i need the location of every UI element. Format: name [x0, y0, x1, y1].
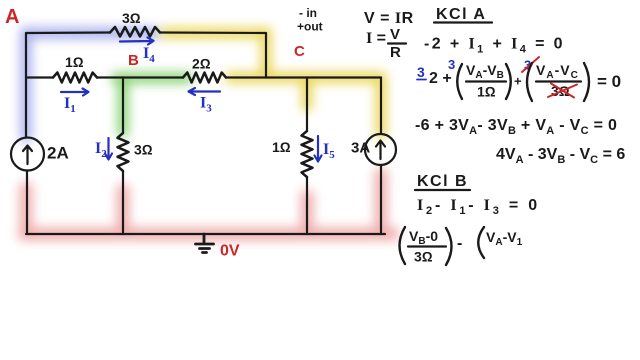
resistor 1ohm (vertical) — [302, 131, 313, 177]
paren ) VB fraction — [446, 228, 452, 265]
svg-text:+out: +out — [297, 20, 323, 34]
arrow I4 — [120, 38, 154, 45]
wire: below 2A source — [26, 171, 28, 235]
svg-text:2Ω: 2Ω — [192, 56, 211, 72]
wire: top row left lead — [26, 31, 110, 34]
svg-text:3Ω: 3Ω — [122, 10, 141, 26]
svg-text:3Ω: 3Ω — [414, 249, 433, 265]
svg-text:-: - — [457, 235, 462, 252]
wire: 1ohm branch top — [306, 78, 308, 132]
wire: top left vertical (node A) — [25, 33, 27, 137]
svg-text:A: A — [5, 6, 19, 28]
svg-text:KCl A: KCl A — [436, 6, 486, 23]
wire: bottom rail — [26, 233, 385, 235]
svg-text:1Ω: 1Ω — [65, 54, 84, 70]
paren ( VA fraction — [478, 227, 484, 258]
ground symbol — [196, 234, 214, 253]
svg-text:3Ω: 3Ω — [134, 142, 153, 158]
svg-text:0V: 0V — [220, 243, 240, 260]
svg-text:2A: 2A — [47, 144, 69, 163]
red slash over blue 3 — [522, 57, 539, 72]
3A source arrow — [376, 141, 385, 160]
arrow I1 — [61, 89, 89, 96]
svg-text:KCl B: KCl B — [417, 173, 468, 190]
svg-text:1Ω: 1Ω — [272, 139, 291, 155]
wire: row2 left lead — [26, 76, 53, 78]
svg-text:3A: 3A — [351, 140, 370, 157]
svg-text:+: + — [514, 74, 522, 89]
resistor 2ohm (row2) — [183, 73, 226, 83]
paren ) second fraction — [584, 63, 589, 101]
arrow I5 (down) — [315, 136, 322, 162]
current source I=3A circle — [365, 134, 396, 165]
paren ( VB fraction — [400, 227, 406, 264]
svg-text:I =: I = — [366, 30, 386, 47]
paren ( first fraction — [457, 64, 462, 99]
wire: below 3A source — [380, 165, 382, 234]
wire: top row right lead to corner — [160, 33, 266, 78]
svg-text:C: C — [294, 43, 305, 60]
wire: 1ohm branch bottom — [306, 177, 308, 234]
current source I=2A circle — [11, 138, 44, 171]
wire: node B vertical — [122, 78, 124, 134]
svg-text:- in: - in — [299, 6, 317, 20]
node A blue highlight — [26, 33, 155, 137]
wire: below 3ohm vertical — [122, 171, 124, 234]
svg-text:V: V — [390, 26, 400, 43]
arrow I3 (points left) — [189, 88, 221, 95]
svg-text:2 +: 2 + — [429, 70, 452, 87]
resistor 3ohm (vertical) — [118, 133, 129, 171]
ground node red highlight — [24, 174, 393, 234]
svg-text:= 0: = 0 — [597, 72, 621, 91]
arrow I2 (down) — [105, 138, 112, 160]
resistor 3ohm (top) — [110, 27, 160, 37]
paren ) first fraction — [506, 64, 511, 99]
resistor 1ohm (row2) — [53, 73, 97, 83]
svg-text:3: 3 — [448, 57, 455, 72]
wire: 3A branch top — [380, 78, 382, 134]
wire: row2 mid — [97, 76, 183, 78]
svg-text:B: B — [128, 52, 139, 69]
wire: row2 right — [226, 76, 381, 78]
red cross-out of 3ohm — [548, 84, 577, 98]
svg-text:V = IR: V = IR — [364, 10, 414, 27]
svg-text:R: R — [390, 44, 401, 61]
svg-text:3: 3 — [417, 64, 425, 80]
svg-text:1Ω: 1Ω — [477, 84, 496, 100]
node B green highlight — [116, 78, 188, 132]
node C yellow highlight — [165, 33, 381, 134]
2A source arrow — [23, 146, 32, 165]
paren ( second fraction — [527, 63, 532, 101]
